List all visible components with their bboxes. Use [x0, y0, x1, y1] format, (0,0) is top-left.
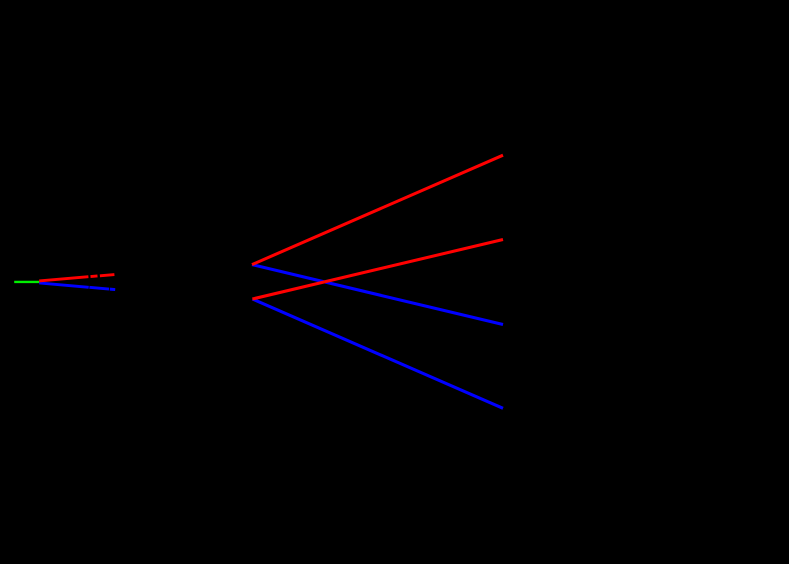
- red ray, left bundle (dashed): [39, 275, 114, 281]
- red ray, upper fan: [252, 155, 503, 264]
- red ray, lower fan: [252, 240, 503, 300]
- incident ray (green): [14, 281, 39, 283]
- blue ray, upper fan: [252, 265, 503, 325]
- blue ray, left bundle: [39, 283, 115, 290]
- blue ray, lower fan: [252, 299, 503, 408]
